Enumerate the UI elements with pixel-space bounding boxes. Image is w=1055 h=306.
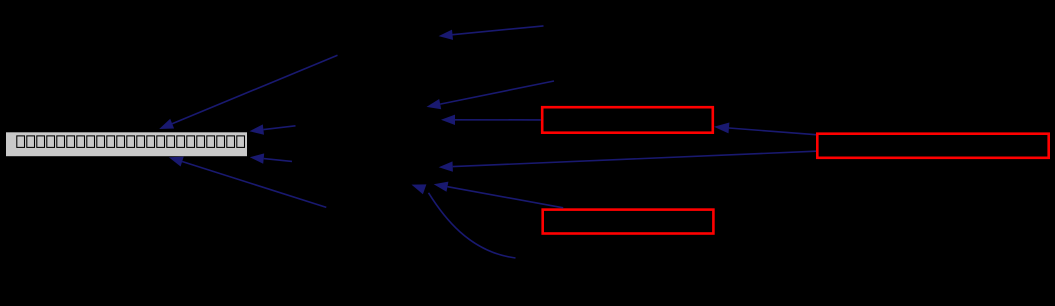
wire E5 into gray box right top bbox=[250, 124, 296, 134]
node: red box 1 (middle upper) bbox=[542, 107, 713, 133]
wire E7 long from red box 3 bbox=[439, 151, 816, 172]
wire E11 curved arrow bbox=[412, 184, 516, 258]
node: red box 3 (right, wide) bbox=[817, 134, 1048, 158]
wire E3 bbox=[427, 81, 555, 109]
node: gray title box bbox=[6, 132, 247, 156]
wire E4 from red box 1 left bbox=[441, 115, 541, 125]
tofu glyph row inside gray box bbox=[17, 136, 245, 148]
wire E9 diagonal into gray box bottom bbox=[169, 157, 326, 208]
wire E10 from red box 2 top edge bbox=[434, 182, 564, 208]
wire E6 red box 3 to red box 1 bbox=[714, 123, 816, 135]
arrows bbox=[159, 26, 816, 258]
wire E8 into gray box right bottom bbox=[250, 153, 292, 163]
wire E1 top arrow bbox=[439, 26, 544, 40]
node: red box 2 (middle lower) bbox=[543, 210, 714, 234]
wire E2 long diagonal into gray box top bbox=[159, 55, 337, 129]
